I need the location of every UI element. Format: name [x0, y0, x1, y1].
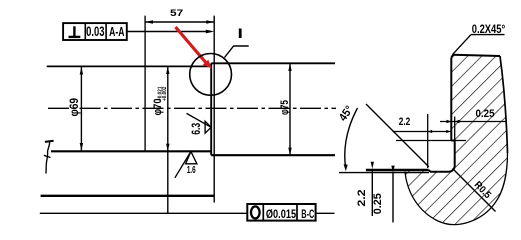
dimension line 2.2 top	[393, 131, 451, 133]
svg-text:0.25: 0.25	[476, 108, 495, 120]
svg-text:57: 57	[170, 7, 183, 18]
notch right wall extension to 0.25 dim	[454, 117, 456, 141]
svg-text:0.25: 0.25	[372, 193, 384, 214]
shaft top edge phi69/phi70	[47, 65, 212, 67]
svg-text:0.2X45°: 0.2X45°	[472, 22, 506, 36]
notch top extension line	[396, 140, 466, 142]
step line phi69/phi70 + extension for 57	[144, 16, 146, 151]
extension line right of 57	[213, 16, 215, 203]
red arrow	[176, 27, 212, 69]
svg-text:B-C: B-C	[301, 207, 314, 221]
break line mark	[44, 141, 54, 174]
label I leader	[225, 46, 249, 58]
roughness 1.6 on bottom surface	[175, 152, 197, 178]
svg-text:A-A: A-A	[109, 25, 124, 39]
chamfer 0.2x45	[451, 55, 453, 58]
45 degree angle arc	[345, 108, 358, 168]
45 degree flank line	[366, 104, 429, 167]
feature control frame concentricity 0.015 B-C	[247, 204, 315, 221]
detail boundary curve	[405, 153, 508, 225]
shaft bottom edge phi75	[211, 154, 335, 156]
svg-text:2.2: 2.2	[356, 190, 368, 207]
R0.5 leader and label	[453, 169, 496, 212]
surface extension thin	[339, 172, 429, 174]
shoulder face	[450, 58, 452, 141]
phi70 surface line	[366, 169, 429, 172]
shaft bottom edge phi70	[51, 150, 212, 152]
hatched material section	[405, 55, 508, 225]
step face phi70/phi75	[210, 63, 212, 155]
svg-text:Ø0.015: Ø0.015	[266, 207, 297, 221]
leader from frame to step face	[127, 31, 211, 33]
svg-text:1.6: 1.6	[187, 165, 196, 176]
svg-text:+0.002: +0.002	[162, 87, 168, 102]
centerline axis	[48, 107, 336, 109]
label I	[239, 29, 242, 39]
detail circle I	[190, 54, 232, 96]
dimension phi69	[69, 67, 83, 151]
undercut groove outline	[429, 141, 455, 172]
vertical dimension 2.2 bottom	[356, 162, 374, 216]
svg-text:6.3: 6.3	[191, 123, 203, 135]
bottom thin line left of frame	[40, 212, 248, 214]
shaft top edge phi75	[211, 62, 335, 64]
bottom thin line right of frame	[316, 212, 335, 214]
vertical dimension 0.25 bottom	[372, 166, 395, 223]
dimension phi70 +0.021/+0.002	[152, 67, 169, 214]
dimension 57	[145, 7, 214, 24]
feature control frame perpendicularity 0.03 A-A	[63, 23, 127, 40]
svg-text:φ69: φ69	[69, 98, 81, 117]
detail right edge	[500, 56, 508, 153]
roughness 6.3 on step face	[187, 113, 212, 134]
svg-text:0.03: 0.03	[86, 24, 105, 39]
svg-text:φ75: φ75	[279, 100, 291, 115]
phi75 shoulder top edge	[453, 55, 500, 56]
lower edge line	[41, 195, 215, 197]
extension line for 2.2	[427, 114, 429, 168]
label 0.2X45 with leader	[453, 22, 506, 54]
dimension phi75	[279, 63, 292, 155]
svg-text:2.2: 2.2	[399, 116, 411, 128]
dimension 0.25 top	[440, 108, 507, 123]
